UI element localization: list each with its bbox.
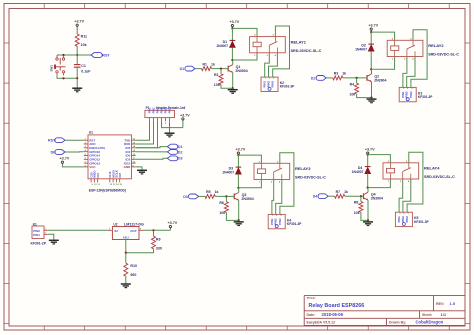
resistor R1 1k — [202, 67, 212, 71]
wire OUT junction to R9 — [153, 230, 155, 236]
wire +3.7V to relay coil pin (RELAY1) — [232, 28, 257, 36]
svg-text:R8: R8 — [354, 201, 359, 205]
wire emitter (Q4) — [367, 200, 369, 220]
svg-text:PIN1: PIN1 — [33, 233, 40, 237]
U1 left pin 8 VCC — [84, 166, 88, 168]
svg-text:2N3904: 2N3904 — [235, 69, 247, 73]
net flag D2 — [167, 150, 177, 155]
resistor R7 1k — [335, 194, 345, 198]
junction collector (RELAY2) — [370, 68, 372, 70]
svg-text:KF301-3P: KF301-3P — [280, 85, 295, 89]
connector K4 KF301-3P body — [268, 214, 285, 228]
wire R10 to ground — [125, 276, 127, 283]
wire coil bottom pin to collector (RELAY2) — [371, 57, 394, 70]
svg-text:RST: RST — [102, 53, 110, 57]
U1 bottom pin stub 10 — [93, 179, 95, 183]
svg-text:VCC: VCC — [89, 165, 96, 169]
svg-text:1k: 1k — [215, 190, 219, 194]
svg-text:EasyEDA V5.5.12: EasyEDA V5.5.12 — [307, 321, 336, 325]
svg-text:ESP-12F(ESP8266MOD): ESP-12F(ESP8266MOD) — [89, 188, 126, 192]
wire RST flag to U1 pin1 — [65, 139, 84, 141]
regulator U2 body — [112, 227, 139, 240]
net flag RST — [91, 53, 102, 58]
wire K1 to U2 IN — [48, 229, 108, 231]
wire to ground — [76, 78, 78, 88]
wire R7 to base — [345, 195, 364, 197]
wire P1 pin4 to +3.7V — [162, 121, 183, 127]
wire node to switch — [57, 54, 77, 56]
wire relay NO to K3 — [407, 57, 415, 84]
U1 right pin 15 RXD — [132, 143, 136, 145]
U1 right pin 12 IO0 — [132, 155, 136, 157]
svg-text:+3.7V: +3.7V — [60, 157, 70, 161]
wire R1 to base — [212, 68, 229, 70]
ground (RELAY4) — [363, 221, 373, 223]
relay RELAY1 SRD-03VDC-SL-C body — [250, 37, 286, 53]
svg-text:D1: D1 — [180, 67, 185, 71]
wire relay NC to K4 — [272, 180, 274, 211]
ground (R10) — [121, 283, 131, 285]
svg-text:+3.7V: +3.7V — [74, 20, 84, 24]
svg-text:RELAY3: RELAY3 — [295, 166, 311, 171]
P1 pin 1 — [149, 118, 151, 122]
svg-text:REV:: REV: — [436, 302, 444, 306]
junction collector (RELAY1) — [231, 59, 233, 61]
transistor Q2 2N3904 — [366, 75, 368, 81]
svg-text:PIN2: PIN2 — [152, 107, 155, 113]
wire R3 to base — [343, 77, 367, 79]
resistor R10 560 — [124, 263, 128, 276]
svg-text:CobaltDragon: CobaltDragon — [416, 320, 444, 325]
U1 right pin 11 IO2 — [132, 158, 136, 160]
svg-text:1/1: 1/1 — [441, 312, 447, 317]
svg-text:0.1uF: 0.1uF — [81, 69, 91, 73]
svg-text:C1: C1 — [81, 64, 86, 68]
svg-text:+3.7V: +3.7V — [230, 20, 240, 24]
IC U1 ESP-12F body — [88, 135, 132, 179]
resistor R8 10k — [360, 196, 362, 201]
svg-text:R6: R6 — [219, 201, 224, 205]
wire collector (Q4) — [367, 188, 369, 193]
wire IO5 to net flag D1 — [136, 147, 168, 148]
wire +3.7V to diode D3 — [237, 155, 239, 167]
P1 pin 5 — [165, 118, 167, 122]
U1 left pin 4 GPIO16 — [84, 151, 88, 153]
wire U1 IO2 to net flag D3 — [136, 158, 168, 159]
wire collector (Q3) — [238, 188, 240, 193]
wire relay NC to K5 — [399, 179, 403, 208]
wire R4 to emitter rail — [357, 94, 372, 98]
svg-text:D2: D2 — [311, 76, 316, 80]
svg-text:Drawn By:: Drawn By: — [389, 321, 406, 325]
svg-text:330: 330 — [156, 246, 162, 250]
wire emitter (Q1) — [232, 73, 234, 89]
wire coil bottom pin to collector (RELAY4) — [368, 179, 391, 188]
transistor Q3 2N3904 — [233, 194, 235, 200]
svg-text:10k: 10k — [349, 93, 355, 97]
wire K1 pin1 to ground — [48, 234, 54, 240]
wire input to R5 — [199, 195, 206, 197]
U1 left pin 6 GPIO12 — [84, 158, 88, 160]
P1 pin 4 — [161, 118, 163, 122]
svg-text:KF301-3P: KF301-3P — [287, 222, 302, 226]
connector P1 body — [145, 110, 175, 117]
connector K2 KF301-3P body — [261, 77, 278, 91]
svg-text:PIN3: PIN3 — [278, 218, 282, 225]
junction +3.7V (RELAY4) — [367, 154, 369, 156]
relay RELAY4 SRD-03VDC-SL-C body — [383, 163, 419, 179]
svg-text:SW1: SW1 — [50, 65, 54, 72]
resistor R5 1k — [205, 194, 215, 198]
svg-text:10k: 10k — [214, 83, 220, 87]
node RST junction — [76, 54, 78, 56]
ground (RELAY3) — [234, 221, 244, 223]
svg-text:R10: R10 — [130, 264, 137, 268]
svg-text:+3.7V: +3.7V — [368, 24, 378, 28]
wire relay common loop (RELAY1) — [273, 26, 290, 73]
svg-text:1N4007: 1N4007 — [352, 170, 364, 174]
transistor Q4 2N3904 — [363, 193, 365, 199]
wire R2 to emitter rail — [221, 85, 233, 89]
svg-text:R11: R11 — [81, 35, 87, 39]
resistor R6 10k — [225, 196, 227, 201]
resistor R3 1k — [333, 76, 343, 80]
svg-text:2018-06-06: 2018-06-06 — [322, 312, 344, 317]
junction base (RELAY1) — [220, 68, 222, 70]
junction collector (RELAY3) — [237, 187, 239, 189]
title block — [304, 296, 465, 326]
svg-text:D1: D1 — [178, 145, 183, 149]
svg-text:U2: U2 — [113, 223, 117, 227]
wire R8 to emitter rail — [361, 212, 368, 220]
svg-text:PIN4: PIN4 — [160, 107, 163, 113]
svg-text:R9: R9 — [156, 237, 161, 241]
net flag D1 — [167, 144, 177, 149]
svg-text:KF301-3P: KF301-3P — [418, 95, 433, 99]
junction base (RELAY2) — [356, 77, 358, 79]
svg-text:R1: R1 — [203, 62, 208, 66]
U1 right pin 13 IO4 — [132, 151, 136, 153]
svg-text:2N3904: 2N3904 — [371, 197, 383, 201]
wire switch to ground rail — [57, 76, 77, 79]
svg-text:+3.7V: +3.7V — [168, 221, 178, 225]
junction base (RELAY3) — [225, 195, 227, 197]
diode D2 1N4007 — [368, 43, 374, 45]
relay RELAY3 SRD-03VDC-SL-C body — [254, 163, 290, 179]
svg-text:RELAY4: RELAY4 — [424, 166, 440, 171]
wire diode to collector (RELAY2) — [370, 51, 372, 69]
wire diode to collector (RELAY1) — [231, 47, 233, 60]
wire coil bottom pin to collector (RELAY3) — [238, 180, 261, 188]
junction collector (RELAY4) — [367, 187, 369, 189]
svg-text:KF301-2P: KF301-2P — [31, 241, 47, 245]
svg-text:Sheet:: Sheet: — [422, 313, 432, 317]
U1 bottom pin stub 15 — [119, 179, 121, 183]
U1 right pin 16 TXD — [132, 139, 136, 141]
pushbutton SW1 — [56, 55, 58, 58]
U1 left pin 7 GPIO13 — [84, 162, 88, 164]
connector K1 body KF301-2P — [32, 226, 44, 239]
svg-text:R4: R4 — [350, 82, 355, 86]
svg-text:+3.7V: +3.7V — [236, 148, 246, 152]
diode D1 1N4007 — [230, 39, 236, 41]
svg-text:SRD-03VDC-SL-C: SRD-03VDC-SL-C — [295, 176, 326, 180]
ground (P1) — [165, 132, 175, 134]
U2 pin stubs — [108, 229, 113, 231]
svg-text:U1: U1 — [89, 131, 93, 135]
U1 bottom pin stub 9 — [90, 179, 92, 183]
wire input to R1 — [195, 68, 202, 70]
junction +3.7V (RELAY3) — [237, 154, 239, 156]
U1 right pin 14 IO5 — [132, 147, 136, 149]
wire coil bottom pin to collector (RELAY1) — [232, 53, 257, 60]
wire +3.7V to R11 — [76, 28, 78, 34]
svg-text:GND: GND — [124, 165, 132, 169]
svg-text:R7: R7 — [336, 190, 341, 194]
wire R11 to node — [76, 46, 78, 55]
U1 bottom pin stub 13 — [112, 179, 114, 183]
wire U1 IO5 to P1 pin3 — [136, 121, 158, 148]
wire R9 to ADJ rail — [126, 249, 154, 253]
svg-text:Relay Board ESP8266: Relay Board ESP8266 — [309, 303, 365, 309]
wire +3.7V to relay coil pin (RELAY2) — [371, 32, 394, 40]
U1 bottom pin stub 14 — [115, 179, 117, 183]
svg-text:PIN6: PIN6 — [168, 107, 171, 113]
wire U1 IO4 to net flag D2 — [136, 151, 168, 153]
resistor R9 330 — [152, 236, 156, 249]
wire C1 to ground rail — [76, 67, 78, 78]
P1 pin 2 — [153, 118, 155, 122]
svg-text:D3: D3 — [178, 157, 183, 161]
svg-text:LM1117-DG: LM1117-DG — [124, 223, 144, 227]
svg-text:1k: 1k — [344, 190, 348, 194]
junction +3.7V (RELAY2) — [370, 31, 372, 33]
wire emitter (Q3) — [238, 200, 240, 220]
wire +3.7V to diode D2 — [370, 32, 372, 44]
U1 left pin 3 EN(CH-PD) — [84, 147, 88, 149]
svg-text:D2: D2 — [178, 150, 183, 154]
P1 pin 6 — [169, 118, 171, 122]
svg-text:10k: 10k — [219, 211, 225, 215]
svg-text:10k: 10k — [354, 211, 360, 215]
svg-text:1k: 1k — [211, 62, 215, 66]
wire +3.7V to relay coil pin (RELAY4) — [368, 155, 391, 163]
wire relay NO to K2 — [269, 53, 278, 73]
svg-text:1.0: 1.0 — [450, 301, 456, 306]
svg-text:PIN3: PIN3 — [405, 216, 409, 223]
capacitor C1 0.1uF — [76, 55, 78, 64]
svg-text:+3.7V: +3.7V — [365, 148, 375, 152]
svg-text:PIN3: PIN3 — [271, 81, 275, 88]
wire input to R3 — [326, 77, 333, 79]
wire U1 RXD to P1 pin2 — [136, 121, 154, 144]
net flag D3 — [167, 156, 177, 161]
U2 ADJ pin wire — [125, 240, 127, 253]
svg-text:R3: R3 — [334, 72, 339, 76]
svg-text:1N4007: 1N4007 — [216, 44, 228, 48]
svg-text:TITLE:: TITLE: — [307, 296, 316, 300]
wire relay common loop (RELAY2) — [411, 30, 427, 84]
svg-text:PIN1: PIN1 — [148, 107, 151, 113]
wire R5 to base — [215, 195, 234, 197]
U1 left pin 5 GPIO14 — [84, 155, 88, 157]
diode D3 1N4007 — [236, 166, 242, 168]
wire relay NO to K5 — [403, 179, 411, 208]
wire collector (Q2) — [371, 69, 373, 74]
svg-text:OUT: OUT — [130, 229, 137, 233]
resistor R11 10k — [75, 34, 79, 46]
svg-text:PIN3: PIN3 — [156, 107, 159, 113]
svg-text:D3: D3 — [183, 195, 188, 199]
svg-text:SRD-03VDC-SL-C: SRD-03VDC-SL-C — [424, 175, 455, 179]
svg-text:D4: D4 — [313, 195, 318, 199]
junction base (RELAY4) — [360, 195, 362, 197]
svg-text:1N4007: 1N4007 — [355, 48, 367, 52]
wire diode to collector (RELAY3) — [237, 174, 239, 188]
wire input to R7 — [328, 195, 335, 197]
wire emitter (Q2) — [371, 82, 373, 98]
U1 bottom pin stub 12 — [109, 179, 111, 183]
wire D6 flag to U1 — [65, 151, 84, 153]
wire node to RST flag — [77, 54, 91, 56]
svg-text:560: 560 — [130, 273, 136, 277]
svg-text:RELAY2: RELAY2 — [428, 43, 444, 48]
wire relay NO to K4 — [276, 180, 282, 211]
wire relay common loop (RELAY3) — [280, 153, 294, 211]
svg-text:SRD-03VDC-SL-C: SRD-03VDC-SL-C — [428, 53, 459, 57]
svg-text:2N3904: 2N3904 — [374, 78, 386, 82]
U1 bottom pin stub 11 — [97, 179, 99, 183]
wire +3.7V to diode D4 — [367, 155, 369, 167]
wire collector (Q1) — [232, 60, 234, 65]
relay RELAY2 SRD-03VDC-SL-C body — [387, 40, 423, 56]
transistor Q1 2N3904 — [227, 66, 229, 72]
connector K5 KF301-3P body — [395, 212, 412, 226]
wire U1 TXD to P1 pin1 — [136, 121, 150, 140]
svg-text:2N3904: 2N3904 — [241, 197, 253, 201]
svg-text:Date:: Date: — [307, 313, 315, 317]
K1 pin stubs — [44, 229, 48, 231]
wire U2 OUT to +3.7V — [143, 229, 171, 231]
wire diode to collector (RELAY4) — [367, 174, 369, 188]
svg-text:IO8: IO8 — [118, 173, 122, 178]
U1 left pin 1 RST — [84, 139, 88, 141]
wire relay NC to K2 — [265, 53, 270, 73]
ground (K1) — [49, 239, 59, 241]
svg-text:R2: R2 — [214, 73, 219, 77]
wire relay common loop (RELAY4) — [407, 152, 423, 208]
svg-text:SRD-03VDC-SL-C: SRD-03VDC-SL-C — [291, 49, 322, 53]
wire U1 GND pin to ground — [136, 167, 142, 170]
svg-text:RELAY1: RELAY1 — [291, 39, 307, 44]
svg-text:10k: 10k — [81, 43, 87, 47]
U1 right pin 9 GND — [132, 166, 136, 168]
svg-text:IO9: IO9 — [96, 173, 100, 178]
U1 right pin 10 IO15 — [132, 162, 136, 164]
resistor R2 10k — [220, 69, 222, 74]
wire +3.7V to U1 VCC — [62, 165, 83, 167]
ground (reset circuit) — [72, 87, 82, 89]
svg-text:ADJ: ADJ — [123, 236, 129, 240]
P1 pin 3 — [157, 118, 159, 122]
svg-text:1k: 1k — [342, 72, 346, 76]
svg-text:PIN5: PIN5 — [164, 107, 167, 113]
wire relay NC to K3 — [403, 57, 407, 84]
wire P1 pin6 to ground — [169, 121, 171, 133]
U1 left pin 2 ADC — [84, 143, 88, 145]
wire +3.7V to relay coil pin (RELAY3) — [238, 155, 261, 163]
diode D4 1N4007 — [365, 166, 371, 168]
ground (RELAY2) — [367, 98, 377, 100]
svg-text:+3.7V: +3.7V — [180, 113, 190, 117]
svg-text:KF301-3P: KF301-3P — [414, 220, 429, 224]
svg-text:1N4007: 1N4007 — [222, 171, 234, 175]
ground (RELAY1) — [228, 89, 238, 91]
wire +3.7V to diode D1 — [231, 28, 233, 40]
resistor R4 10k — [356, 78, 358, 83]
svg-text:R5: R5 — [206, 190, 211, 194]
wire ADJ junction to R10 — [125, 253, 127, 263]
connector K3 KF301-3P body — [399, 87, 416, 101]
svg-text:PIN3: PIN3 — [409, 91, 413, 98]
ground (U1) — [137, 169, 147, 171]
wire R6 to emitter rail — [226, 213, 238, 221]
junction +3.7V (RELAY1) — [231, 27, 233, 29]
